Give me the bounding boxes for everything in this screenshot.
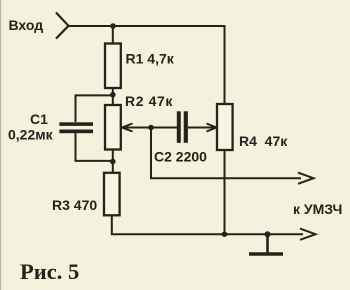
- page left edge line: [0, 0, 1, 290]
- svg-text:R4 47к: R4 47к: [239, 133, 288, 149]
- svg-text:Рис. 5: Рис. 5: [20, 259, 79, 284]
- capacitor C1 plates: [59, 122, 93, 133]
- svg-text:к УМЗЧ: к УМЗЧ: [293, 201, 342, 217]
- svg-text:R1 4,7к: R1 4,7к: [126, 51, 175, 67]
- junction node wiper/C2/output: [148, 125, 154, 131]
- ground: [249, 234, 283, 254]
- wire: output line from wiper node: [151, 128, 301, 179]
- capacitor C2 plates: [177, 111, 188, 143]
- output arrow to amplifier: [298, 173, 314, 184]
- resistor R1: [105, 44, 121, 89]
- svg-text:Вход: Вход: [9, 17, 44, 33]
- bottom rail arrow: [300, 229, 316, 240]
- wire: R2 top lead: [112, 95, 114, 105]
- svg-text:R3 470: R3 470: [52, 197, 97, 213]
- junction dot: R4 bottom on rail: [222, 231, 228, 237]
- wire: R1 top lead: [112, 26, 114, 44]
- resistor R3: [104, 173, 120, 216]
- wire: R4 bottom lead: [224, 150, 226, 235]
- wire: R1 bottom lead: [112, 88, 114, 95]
- wire: right vertical down to R4: [224, 25, 226, 104]
- input terminal symbol: [56, 13, 69, 39]
- svg-text:C2 2200: C2 2200: [154, 149, 207, 165]
- wire: C2 to R4 wiper arrow: [188, 124, 217, 132]
- capacitor C1 bottom wire: [76, 133, 113, 161]
- junction node R1/R2/C1: [110, 92, 116, 98]
- wire: R3 top lead: [112, 161, 114, 173]
- junction node R2/R3/C1: [110, 159, 116, 165]
- wire: wiper node to C2: [151, 127, 177, 129]
- wire: R2 bottom lead: [112, 150, 114, 163]
- potentiometer R4 body: [217, 104, 233, 150]
- wire: R3 bottom lead and bottom rail: [112, 215, 303, 234]
- wire: input top rail to corner: [69, 25, 226, 27]
- junction dot: ground tap: [265, 231, 271, 237]
- svg-text:R2 47к: R2 47к: [125, 93, 173, 109]
- wiper arrow of R2: [122, 124, 152, 132]
- svg-text:C1: C1: [30, 111, 48, 127]
- potentiometer R2 body: [105, 105, 121, 150]
- capacitor C1 top wire: [76, 95, 113, 122]
- svg-text:0,22мк: 0,22мк: [8, 127, 54, 143]
- junction dot: top rail / R1: [110, 23, 116, 29]
